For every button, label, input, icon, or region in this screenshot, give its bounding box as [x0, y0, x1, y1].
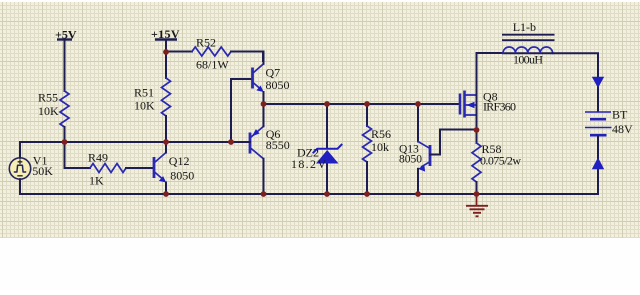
zener diode DZ2 18.2V: [291, 104, 342, 194]
MOSFET Q8 IRF360: [460, 53, 516, 130]
junction DZ2 anode-ground rail: [324, 191, 330, 197]
resistor R51: [134, 52, 171, 142]
junction DZ2 cathode-gate net: [324, 101, 330, 107]
junction Q13 emitter-ground rail: [415, 191, 421, 197]
svg-text:18.2V: 18.2V: [291, 157, 326, 171]
resistor R52: [166, 35, 263, 71]
resistor R55: [38, 91, 69, 143]
svg-text:Q12: Q12: [169, 154, 190, 168]
junction +15V/R51/R52: [163, 49, 169, 55]
svg-text:8050: 8050: [170, 169, 194, 183]
junction R56 bottom-ground rail: [364, 191, 370, 197]
svg-text:0.075/2w: 0.075/2w: [480, 154, 521, 168]
wire +5V to R55: [64, 40, 66, 92]
svg-text:10K: 10K: [38, 104, 59, 118]
resistor R49: [65, 142, 154, 187]
transistor Q7 (NPN 8050): [253, 52, 290, 105]
wire +15V down to node: [165, 40, 167, 53]
voltage source V1: [9, 154, 53, 180]
wire V1 bottom to ground rail: [19, 179, 21, 194]
svg-text:BT: BT: [612, 108, 628, 122]
current arrow up: [592, 158, 604, 170]
inductor L1-b 100uH: [502, 20, 555, 66]
wire inductor to battery: [553, 53, 598, 111]
svg-text:100uH: 100uH: [513, 53, 543, 67]
svg-text:8550: 8550: [266, 138, 290, 152]
battery BT 48V: [585, 108, 633, 136]
svg-text:IRF360: IRF360: [483, 100, 516, 114]
wire battery bottom: [597, 137, 599, 195]
svg-text:R51: R51: [134, 86, 154, 100]
power port +15V: [151, 27, 180, 41]
svg-text:8050: 8050: [266, 78, 290, 92]
wire Q8 drain to inductor: [477, 52, 504, 54]
junction R58 bottom-ground: [474, 191, 480, 197]
junction R51-drive net: [163, 139, 169, 145]
resistor R56: [363, 104, 392, 194]
ground symbol: [466, 194, 488, 216]
svg-text:8050: 8050: [399, 154, 422, 166]
svg-text:R56: R56: [371, 127, 391, 141]
svg-text:R52: R52: [196, 35, 216, 49]
wire ground rail: [20, 193, 598, 195]
svg-text:1K: 1K: [89, 173, 104, 187]
resistor R58: [472, 130, 521, 194]
svg-text:10k: 10k: [371, 140, 389, 154]
svg-text:R55: R55: [38, 91, 58, 105]
junction Q6 collector-ground rail: [261, 191, 267, 197]
svg-text:R49: R49: [88, 151, 108, 165]
junction Q7/Q6 emitters-gate net: [261, 101, 267, 107]
junction Q7/Q6 base node: [228, 139, 234, 145]
transistor Q6 (PNP 8550): [231, 104, 290, 194]
svg-text:L1-b: L1-b: [513, 20, 536, 34]
svg-text:10K: 10K: [134, 99, 155, 113]
wire to Q7/Q6 bases: [231, 79, 252, 142]
junction R55-V1 drive net: [62, 139, 68, 145]
svg-text:48V: 48V: [612, 122, 633, 136]
schematic grid background: [0, 2, 640, 238]
wire V1 top to drive net: [20, 142, 231, 158]
wire gate control net: [264, 103, 461, 105]
junction Q8 source/R58/Q13 base: [474, 127, 480, 133]
transistor Q12 (NPN 8050): [154, 142, 194, 194]
transistor Q13 (NPN 8050): [399, 104, 477, 194]
svg-text:68/1W: 68/1W: [196, 58, 229, 72]
current arrow down: [592, 77, 604, 88]
junction Q13 collector-gate net: [415, 101, 421, 107]
junction R56 top-gate net: [364, 101, 370, 107]
junction Q12 emitter-ground rail: [163, 191, 169, 197]
svg-text:50K: 50K: [32, 164, 53, 178]
svg-text:+5V: +5V: [55, 28, 77, 42]
power port +5V: [55, 28, 77, 42]
